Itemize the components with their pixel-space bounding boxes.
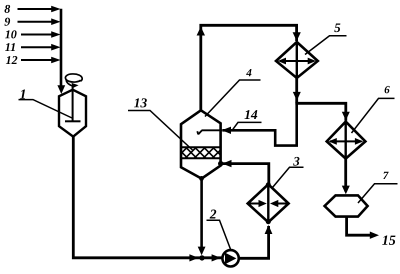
wire 14: tee junction back to reactor 4 — [222, 103, 296, 145]
stream arrow 10 — [21, 34, 52, 36]
leader line for label 13 — [128, 111, 193, 151]
leader line for label 6 — [352, 98, 395, 133]
sprayer nozzle inside reactor 4 — [197, 130, 222, 134]
node at top vertex of exchanger 3 — [266, 182, 271, 187]
wire: pump 2 to heat exchanger 3 — [239, 226, 269, 258]
label 15 — [382, 236, 395, 245]
wire: vessel 4 downcomer to pump line — [200, 179, 203, 248]
stream arrow 11 — [21, 46, 52, 48]
heat exchanger 5 — [276, 42, 318, 78]
label 5 — [334, 23, 340, 32]
mixer vessel 1 — [59, 90, 86, 137]
wire: reactor 4 riser to heat exchanger 5 — [201, 25, 297, 110]
label 11 — [5, 43, 15, 51]
leader line for label 2 — [207, 220, 232, 250]
label 2 — [210, 210, 217, 219]
leader line for label 4 — [205, 80, 261, 117]
stream arrow 9 — [18, 21, 53, 23]
wire: heat exchanger 3 to reactor 4 lower inlet — [222, 164, 269, 184]
leader line for label 1 — [19, 100, 73, 118]
arrow 14 into reactor 4 — [222, 127, 231, 134]
wire: feed manifold into vessel 1 — [60, 9, 63, 86]
label 7 — [383, 172, 388, 179]
node at bottom vertex of exchanger 3 — [266, 219, 271, 224]
node at bottom vertex of reactor 4 — [199, 176, 204, 181]
label 6 — [385, 86, 390, 93]
leader line for label 14 — [233, 122, 262, 129]
label 8 — [5, 5, 11, 13]
junction node on reactor 4 wall — [218, 161, 223, 166]
wire: vessel 1 outlet to pump 2 — [73, 137, 222, 258]
pump 2 — [222, 250, 238, 266]
stream arrow 12 — [21, 59, 52, 61]
rotation arrow above vessel 1 — [65, 74, 82, 86]
junction node at pump suction — [199, 255, 204, 260]
wire: heat exchanger 5 down to tee junction — [295, 78, 298, 103]
leader line for label 5 — [305, 36, 347, 55]
stirrer shaft of vessel 1 — [65, 85, 81, 121]
label 13 — [134, 98, 147, 107]
leader line for label 3 — [273, 167, 304, 187]
label 4 — [246, 69, 251, 76]
label 1 — [20, 90, 25, 99]
leader line for label 7 — [358, 184, 398, 203]
reactor vessel 4 — [181, 110, 221, 178]
catalyst bed 13 in reactor 4 — [181, 147, 221, 158]
heat exchanger 6 — [327, 122, 366, 159]
label 14 — [245, 110, 258, 119]
heat exchanger 3 — [248, 184, 289, 222]
wire: heat exchanger 6 to separator 7 — [344, 159, 347, 192]
label 9 — [4, 18, 10, 26]
stream arrow 8 — [18, 8, 53, 10]
label 3 — [293, 157, 299, 166]
label 10 — [5, 30, 17, 38]
separator 7 — [325, 195, 368, 216]
wire: separator 7 outlet, stream 15 — [347, 217, 371, 235]
wire: tee junction to heat exchanger 6 — [295, 103, 345, 121]
label 12 — [6, 56, 17, 64]
